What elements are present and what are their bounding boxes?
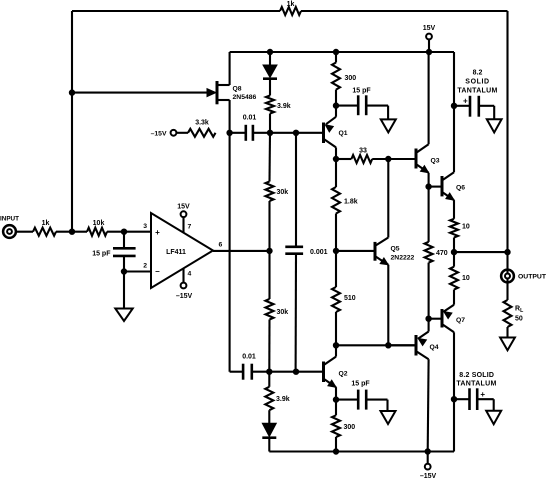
wire top feedback rail — [72, 10, 280, 12]
transistor Q1 — [322, 123, 325, 144]
svg-text:+: + — [155, 228, 160, 237]
transistor Q8 2N5486 JFET — [216, 81, 219, 104]
svg-text:1k: 1k — [42, 220, 50, 227]
svg-text:2N2222: 2N2222 — [391, 255, 415, 262]
ground op-amp — [123, 272, 125, 309]
svg-text:–15V: –15V — [420, 473, 437, 480]
svg-text:300: 300 — [345, 75, 357, 82]
resistor 3.9k lower — [268, 372, 270, 387]
capacitor 0.01 lower — [230, 371, 244, 373]
svg-text:3: 3 — [143, 223, 147, 230]
svg-text:Q1: Q1 — [339, 130, 348, 137]
capacitor 8.2 solid tantalum upper — [454, 105, 470, 107]
op-amp U1 LF411 — [151, 213, 213, 288]
resistor 1k input — [33, 228, 56, 236]
resistor 470 — [428, 187, 430, 242]
wire left feedback vertical — [71, 11, 73, 232]
node +input — [121, 229, 126, 234]
transistor Q5 2N2222 — [374, 242, 377, 261]
node 510 bottom — [333, 343, 338, 348]
wire +15V rail — [230, 51, 454, 53]
svg-text:3.9k: 3.9k — [277, 103, 291, 110]
svg-text:OUTPUT: OUTPUT — [518, 274, 547, 281]
node output — [505, 249, 510, 254]
svg-text:15V: 15V — [423, 25, 436, 32]
pin 6 output wire — [213, 250, 270, 252]
wire Q2 collector line — [336, 344, 415, 346]
resistor 1.8k — [335, 159, 337, 187]
node divider mid (op-amp output) — [267, 248, 272, 253]
pin 7 supply — [182, 218, 184, 233]
svg-text:0.01: 0.01 — [242, 354, 256, 361]
resistor 30k upper — [266, 182, 274, 202]
node 300 bottom — [333, 449, 338, 454]
ground lower 15pF — [386, 400, 388, 411]
svg-text:6: 6 — [219, 242, 223, 249]
svg-text:33: 33 — [359, 147, 367, 154]
node 3.9k bottom — [267, 130, 272, 135]
svg-text:300: 300 — [344, 424, 356, 431]
svg-text:10k: 10k — [93, 220, 105, 227]
wire -input — [124, 270, 151, 272]
terminal -15V bottom — [427, 452, 429, 464]
transistor Q3 — [415, 149, 418, 169]
node gate tap — [69, 90, 74, 95]
node Q4 collector / -15V — [425, 449, 430, 454]
svg-text:15 pF: 15 pF — [92, 251, 111, 258]
wire coupling vertical left — [229, 133, 231, 372]
svg-text:3.3k: 3.3k — [195, 120, 209, 127]
ground upper 15pF — [387, 106, 389, 120]
svg-text:+: + — [463, 97, 468, 106]
wire Q7 collector to rail — [453, 399, 455, 451]
resistor 10 upper — [450, 219, 458, 238]
transistor Q4 — [415, 335, 418, 356]
svg-text:LF411: LF411 — [166, 249, 186, 256]
svg-text:TANTALUM: TANTALUM — [456, 381, 496, 388]
svg-text:Q7: Q7 — [456, 317, 465, 324]
svg-text:–15V: –15V — [151, 130, 167, 137]
terminal 15V supply — [426, 34, 432, 40]
node tantalum tap upper — [451, 103, 456, 108]
node Q1 emitter — [333, 103, 338, 108]
svg-text:Q4: Q4 — [430, 344, 439, 351]
resistor 510 — [335, 251, 337, 287]
svg-text:15 pF: 15 pF — [351, 380, 370, 387]
node tantalum tap lower — [451, 397, 456, 402]
wire gate line to Q8 — [72, 92, 208, 94]
resistor 3.9k upper — [266, 96, 274, 114]
svg-text:15V: 15V — [177, 203, 190, 210]
node 0.001 top — [293, 130, 298, 135]
wire Q6 base — [429, 186, 441, 188]
node -input — [121, 269, 126, 274]
svg-text:1.8k: 1.8k — [344, 198, 358, 205]
svg-text:1k: 1k — [287, 1, 295, 8]
svg-text:10: 10 — [462, 275, 470, 282]
node rail-300 — [333, 49, 338, 54]
resistor 1k (feedback) — [280, 7, 301, 15]
node Q8 source — [227, 130, 232, 135]
transistor Q6 — [441, 176, 444, 196]
wire Q5 base line — [336, 250, 374, 252]
capacitor 15 pF lower — [336, 399, 358, 401]
svg-text:Q6: Q6 — [456, 185, 465, 192]
svg-text:Q3: Q3 — [431, 157, 440, 164]
terminal -15V left — [171, 130, 177, 136]
resistor 300 lower — [335, 400, 337, 416]
svg-text:Q5: Q5 — [391, 245, 400, 252]
wire right border — [506, 11, 508, 252]
resistor 30k lower — [266, 299, 274, 320]
terminal INPUT jack — [9, 231, 16, 233]
svg-text:Q8: Q8 — [233, 86, 242, 93]
pin 4 supply — [182, 268, 184, 282]
ground upper tantalum — [493, 106, 495, 119]
svg-text:2N5486: 2N5486 — [233, 94, 257, 101]
node 0.001 bottom — [293, 369, 298, 374]
svg-text:SOLID: SOLID — [465, 78, 489, 85]
node Q5 emitter bottom — [386, 343, 391, 348]
svg-text:15 pF: 15 pF — [352, 88, 371, 95]
svg-text:0.001: 0.001 — [310, 249, 328, 256]
svg-text:30k: 30k — [277, 189, 289, 196]
svg-text:50: 50 — [515, 315, 523, 322]
resistor 300 upper — [335, 52, 337, 63]
resistor RL 50 — [506, 283, 508, 300]
node feedback junction — [69, 229, 74, 234]
svg-text:10: 10 — [462, 223, 470, 230]
wire to output — [454, 251, 508, 253]
node 3.9k lower top — [267, 369, 272, 374]
svg-text:Q2: Q2 — [339, 370, 348, 377]
svg-text:0.01: 0.01 — [243, 115, 257, 122]
svg-text:470: 470 — [436, 250, 448, 257]
wire -15V to 3.3k — [176, 132, 188, 134]
wire bottom rail — [269, 450, 454, 452]
svg-text:4: 4 — [188, 271, 192, 278]
capacitor 8.2 solid tantalum lower — [454, 398, 470, 400]
resistor 10 lower — [450, 267, 458, 290]
resistor 10k — [87, 228, 107, 236]
diode D1 top — [269, 52, 271, 65]
ground RL — [506, 327, 508, 338]
capacitor 15 pF upper — [336, 105, 358, 107]
svg-text:TANTALUM: TANTALUM — [457, 87, 497, 94]
svg-text:8.2 SOLID: 8.2 SOLID — [459, 372, 494, 379]
wire 30k divider top — [268, 133, 271, 182]
svg-text:3.9k: 3.9k — [276, 396, 290, 403]
resistor 3.3k — [188, 129, 216, 137]
capacitor 15 pF input — [123, 232, 125, 249]
capacitor 0.01 upper — [230, 132, 246, 134]
resistor 33 — [336, 158, 351, 160]
node output junction — [451, 249, 456, 254]
node rail-diode — [267, 49, 272, 54]
svg-text:+: + — [480, 390, 485, 399]
svg-text:8.2: 8.2 — [473, 69, 483, 76]
svg-text:7: 7 — [188, 224, 192, 231]
node Q3 emitter / Q6 base — [426, 184, 431, 189]
svg-text:30k: 30k — [277, 309, 289, 316]
transistor Q2 — [322, 362, 325, 383]
svg-text:INPUT: INPUT — [0, 216, 19, 223]
transistor Q7 — [441, 309, 444, 328]
node 1.8k-510 — [333, 248, 338, 253]
node Q2 emitter — [333, 397, 338, 402]
capacitor 0.001 vertical — [295, 133, 297, 247]
ground lower tantalum — [493, 399, 495, 411]
svg-text:510: 510 — [344, 295, 356, 302]
node 33 right / Q5 collector — [386, 156, 391, 161]
svg-text:–15V: –15V — [176, 293, 193, 300]
wire input — [16, 231, 33, 233]
node Q1 collector / 33 — [333, 156, 338, 161]
node rail-15V — [426, 49, 431, 54]
node Q7 base / 470 — [426, 316, 431, 321]
svg-text:–: – — [155, 267, 160, 276]
diode D2 lower — [268, 410, 270, 423]
svg-text:2: 2 — [143, 263, 147, 270]
terminal OUTPUT jack — [506, 252, 508, 283]
